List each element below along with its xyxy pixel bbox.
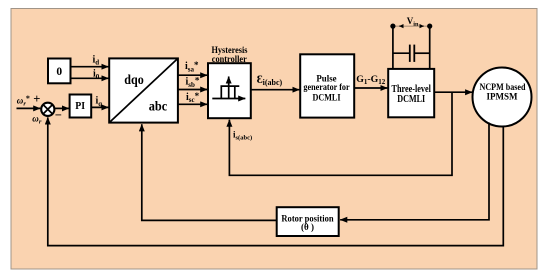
wire right dc rail	[429, 26, 431, 69]
hysteresis graphic vertical arrow	[228, 77, 230, 99]
wire dqo to hysteresis (i_sc*)	[178, 103, 207, 105]
wire pulse generator to three-level	[354, 87, 387, 89]
svg-text:+: +	[33, 92, 40, 106]
node dot left	[390, 24, 395, 29]
motor NCPM based IPMSM	[473, 68, 532, 127]
wire speed reference input	[17, 107, 41, 109]
block zero	[48, 59, 71, 84]
wire PI to dqo	[91, 106, 108, 108]
node dot right	[427, 24, 432, 29]
svg-text:IPMSM: IPMSM	[487, 92, 518, 102]
wire zero to dqo (i_0)	[71, 77, 109, 79]
block dqo/abc	[109, 58, 178, 122]
Vin dimension arrow left	[399, 25, 403, 27]
svg-text:DCMLI: DCMLI	[312, 93, 340, 103]
hysteresis graphic axis	[212, 98, 245, 100]
wire speed feedback omega_r	[48, 117, 504, 245]
svg-text:−: −	[55, 108, 62, 122]
wire dqo to hysteresis (i_sb*)	[178, 89, 207, 91]
svg-text:(θ ): (θ )	[301, 222, 314, 232]
block three-level DCMLI	[388, 69, 434, 117]
capacitor C	[393, 45, 430, 62]
hysteresis graphic pulse	[221, 86, 239, 98]
svg-text:DCMLI: DCMLI	[397, 94, 425, 105]
svg-text:generator for: generator for	[303, 83, 350, 93]
svg-text:dqo: dqo	[124, 72, 144, 87]
wire three-level to motor	[434, 91, 472, 93]
svg-text:0: 0	[56, 66, 62, 78]
wire motor to rotor position	[340, 123, 489, 220]
svg-text:abc: abc	[149, 99, 168, 114]
block pulse generator	[300, 54, 354, 117]
wire rotor position to dqo	[142, 124, 277, 220]
block PI	[70, 95, 92, 118]
wire dqo to hysteresis (i_sa*)	[178, 74, 207, 76]
block rotor position	[277, 207, 339, 236]
summing junction	[41, 103, 54, 116]
wire left dc rail	[392, 26, 394, 69]
Vin dimension line	[395, 25, 429, 27]
Vin dimension arrow right	[420, 25, 424, 27]
wire i_s(abc) feedback	[229, 92, 452, 175]
wire zero to dqo (i_d)	[71, 66, 109, 68]
wire junction to PI	[55, 107, 69, 109]
block hysteresis controller	[208, 63, 251, 118]
wire hysteresis to pulse generator	[251, 89, 299, 91]
svg-text:PI: PI	[75, 100, 85, 112]
